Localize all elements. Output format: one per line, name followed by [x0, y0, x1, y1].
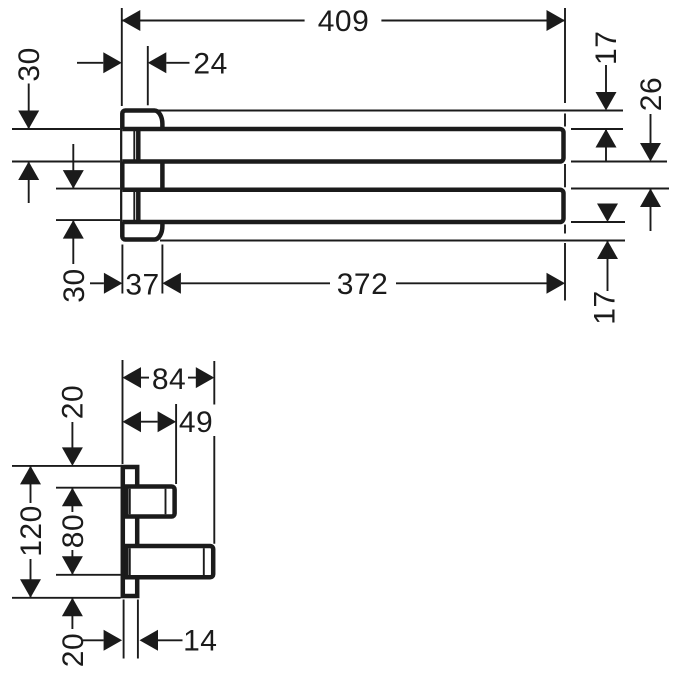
svg-text:30: 30: [58, 268, 91, 302]
towel bar 1 top view: [122, 129, 563, 162]
dimension chain 17 lower right: [597, 204, 618, 223]
svg-text:24: 24: [193, 47, 227, 80]
arm 2 thin joint lines: [129, 548, 131, 575]
arm 1 side view: [126, 487, 174, 517]
bar 2 left end thick line: [136, 190, 141, 222]
arm 1 thin joint lines: [129, 489, 131, 515]
dimension line 409: [122, 20, 565, 22]
svg-text:17: 17: [588, 290, 621, 324]
arrow 409 right: [547, 10, 566, 31]
svg-text:409: 409: [318, 5, 370, 38]
extension lines below plate side view: [124, 600, 138, 659]
dimension line 24: [77, 62, 190, 64]
wall plate side view: [123, 467, 137, 596]
dimension chain 20 upper left side view: [71, 422, 73, 448]
dimension line 84: [141, 377, 196, 379]
wall plate top view: [122, 111, 162, 240]
svg-text:17: 17: [590, 31, 623, 65]
arrow 24 right outside: [148, 52, 167, 73]
svg-text:26: 26: [635, 77, 668, 111]
svg-text:80: 80: [57, 514, 90, 548]
right extension lines top view: [157, 111, 669, 241]
svg-text:120: 120: [15, 505, 48, 557]
extension line left of 409: [121, 8, 123, 106]
extension lines below plate for 37: [122, 245, 162, 294]
dimension chain 120 side view: [20, 466, 41, 485]
svg-text:20: 20: [56, 385, 89, 419]
arrow 409 left: [122, 10, 141, 31]
dimension line 14: [83, 639, 104, 641]
dimension chain 26 right: [650, 114, 652, 143]
extension lines above side view: [123, 360, 215, 544]
svg-text:14: 14: [183, 625, 217, 658]
extension line for 24: [147, 46, 149, 105]
dimension line 37: [90, 282, 104, 284]
left extension lines side view: [12, 466, 121, 598]
extension line right of 409 dashed: [564, 8, 566, 301]
dimension chain 20 lower left side view: [62, 598, 83, 617]
svg-text:37: 37: [125, 269, 159, 302]
bar 1 left end thick line: [136, 129, 141, 162]
bar 1 pivot thin line: [133, 131, 135, 160]
svg-text:49: 49: [179, 406, 213, 439]
svg-text:20: 20: [57, 633, 90, 667]
dimension chain 17 upper right: [605, 65, 607, 93]
dimension line 372: [162, 273, 181, 294]
svg-text:30: 30: [13, 47, 46, 81]
svg-text:84: 84: [152, 363, 186, 396]
arm 2 side view: [126, 546, 213, 577]
left extension lines top view: [12, 129, 120, 220]
towel bar 2 top view: [122, 190, 563, 222]
dimension chain 80 side view: [62, 488, 83, 507]
bar 2 pivot thin line: [133, 192, 135, 221]
svg-text:372: 372: [337, 268, 389, 301]
arrow 24 left outside: [103, 52, 122, 73]
dimension line 49: [141, 421, 158, 423]
dimension chain 30 lower left: [72, 144, 74, 189]
dimension chain 30 upper left: [28, 84, 30, 130]
